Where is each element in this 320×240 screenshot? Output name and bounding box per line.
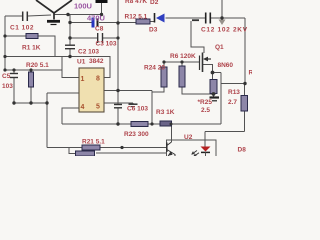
svg-text:R24 20: R24 20: [144, 65, 165, 72]
wire feedback vertical: [46, 93, 48, 148]
wire C12 top stub: [221, 0, 223, 18]
capacitor C3: [98, 33, 103, 43]
wire left vertical rail: [4, 16, 6, 70]
resistor R3: [160, 121, 172, 126]
svg-text:U2: U2: [184, 134, 193, 141]
svg-text:5: 5: [96, 104, 100, 111]
wire R6 bottom lead: [182, 87, 214, 94]
svg-text:R13: R13: [228, 89, 240, 96]
wire R13 top lead: [244, 84, 246, 96]
capacitor C5: [10, 74, 18, 78]
svg-text:2.7: 2.7: [228, 99, 237, 106]
ground under R25: [210, 98, 220, 101]
capacitor C2: [65, 45, 75, 49]
wire right mid vertical: [220, 73, 222, 125]
wire C6 gnd stub: [132, 103, 134, 105]
wire C2 vertical: [69, 15, 71, 46]
wire pin2: [47, 92, 79, 94]
svg-text:R1 1K: R1 1K: [22, 45, 41, 52]
svg-text:C6 103: C6 103: [127, 106, 148, 113]
svg-text:R20 5.1: R20 5.1: [26, 62, 49, 69]
capacitor C8 470U: [92, 18, 99, 28]
capacitor C6: [114, 105, 122, 108]
svg-text:C8: C8: [95, 26, 104, 33]
svg-text:103: 103: [2, 83, 13, 90]
wire R6 top lead: [181, 62, 183, 66]
wire R24 top lead: [163, 62, 165, 67]
wire R22 left lead: [69, 148, 76, 154]
wire 100U lead: [101, 3, 103, 15]
wire R20 row: [5, 69, 62, 71]
ground at pin5: [129, 104, 138, 106]
wire R13 branch row: [221, 83, 245, 85]
wire D3 to C12: [166, 17, 206, 19]
wire ground bus left: [14, 102, 47, 104]
resistor R23: [131, 122, 148, 127]
wire C1 row: [5, 15, 22, 17]
svg-text:R8 47K: R8 47K: [125, 0, 147, 5]
svg-text:R3 1K: R3 1K: [156, 109, 175, 116]
capacitor C1: [23, 12, 28, 22]
wire right edge vertical: [244, 18, 246, 84]
capacitor 100U plates: [96, 0, 108, 3]
transformer slant wires: [36, 0, 72, 20]
wire R21 right to opto: [100, 147, 167, 149]
svg-text:8: 8: [96, 76, 100, 83]
ground arrow at C12: [219, 20, 226, 26]
resistor R21: [82, 145, 100, 150]
wire center vertical rail: [117, 0, 119, 104]
svg-text:4: 4: [81, 104, 85, 111]
wire R24 bottom lead: [152, 87, 164, 92]
wire pin5 row: [104, 102, 133, 104]
svg-text:Q1: Q1: [215, 44, 224, 51]
diode D3: [155, 13, 165, 23]
opto transistor: [167, 142, 175, 157]
resistor R13: [241, 96, 248, 112]
svg-text:U1: U1: [77, 59, 86, 66]
IC U1 3842: [79, 68, 104, 112]
svg-text:R6 120K: R6 120K: [170, 53, 196, 60]
wire opto collector: [171, 124, 173, 142]
svg-text:2.5: 2.5: [201, 107, 210, 114]
wire R22 row to opto: [96, 152, 167, 154]
svg-text:C3 103: C3 103: [96, 41, 117, 48]
resistor R25: [210, 80, 217, 94]
ground stub near C12 left: [192, 19, 199, 21]
resistor R1: [26, 34, 38, 39]
svg-text:1: 1: [81, 76, 85, 83]
wire mid row to pin8: [5, 57, 110, 78]
svg-text:R12 5.1: R12 5.1: [125, 13, 148, 20]
wire pin1: [62, 57, 79, 78]
svg-text:R23 300: R23 300: [124, 131, 149, 138]
svg-text:R21 5.1: R21 5.1: [82, 139, 105, 146]
wire C3 row: [70, 37, 97, 39]
wire bottom right row: [205, 131, 245, 133]
wire R25 bottom lead: [213, 94, 215, 97]
wire source row right: [213, 72, 222, 74]
wire gate rail: [163, 61, 199, 63]
wire pin7 row: [104, 90, 152, 92]
resistor R24: [161, 67, 167, 87]
resistor R6: [179, 66, 185, 87]
resistor R12: [136, 19, 150, 24]
U1 pin numbers: [81, 76, 101, 112]
wire C8 row: [70, 22, 92, 24]
resistor R20: [29, 72, 34, 87]
wire R12 to D3: [150, 21, 155, 23]
wire drain vertical: [191, 21, 204, 53]
wire source lead: [203, 65, 213, 73]
wire C8 right row: [99, 22, 136, 24]
wire C5 lead: [13, 70, 15, 73]
U2 LED: [201, 147, 211, 158]
wire top rail: [54, 14, 102, 16]
wire R25 top lead: [212, 73, 214, 80]
wire R13 bottom: [244, 111, 246, 132]
optocoupler U2 box: [167, 140, 217, 157]
svg-text:D3: D3: [149, 27, 158, 34]
svg-text:R: R: [249, 70, 253, 77]
svg-text:C1 102: C1 102: [10, 25, 34, 32]
wire R20 leads: [30, 70, 32, 72]
wire R1 row: [5, 35, 26, 37]
transistor Q1 mosfet: [200, 53, 212, 73]
svg-text:*R25: *R25: [198, 99, 213, 106]
svg-text:C12 102 2KV: C12 102 2KV: [201, 27, 248, 34]
svg-text:D8: D8: [238, 147, 247, 154]
wire pin4 drop: [62, 108, 79, 124]
svg-text:C5: C5: [2, 73, 11, 80]
svg-text:470U: 470U: [87, 14, 105, 23]
wire ground rail: [62, 123, 131, 125]
U2 emission arrows: [192, 151, 199, 157]
wire mid vertical to gnd rail: [151, 91, 153, 125]
svg-text:8N60: 8N60: [218, 62, 234, 69]
ground bar top-left: [47, 21, 60, 24]
svg-text:D2: D2: [150, 0, 159, 6]
resistor R22: [76, 151, 95, 156]
svg-text:C2 103: C2 103: [78, 49, 99, 56]
wire C12 right: [211, 17, 246, 19]
svg-text:100U: 100U: [74, 2, 92, 11]
wire bottom left row: [47, 147, 82, 149]
wire opto led drop: [204, 132, 206, 147]
capacitor C12: [206, 13, 211, 24]
svg-text:3842: 3842: [89, 58, 104, 65]
